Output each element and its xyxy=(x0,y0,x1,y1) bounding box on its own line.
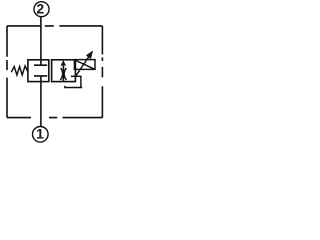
restriction arcs (right box) xyxy=(60,68,66,80)
proportional arrowhead xyxy=(86,51,93,59)
svg-text:1: 1 xyxy=(36,125,44,141)
wire: port 1 line from valve bottom to circle xyxy=(40,82,42,127)
blocked port T top (left box) xyxy=(34,60,47,65)
enclosure dashed boundary top xyxy=(7,25,102,27)
manual override step: left tick xyxy=(64,86,66,88)
enclosure dashed boundary left xyxy=(6,26,8,118)
spring (left of valve) xyxy=(11,66,27,75)
wire: port 2 line from circle to valve top xyxy=(40,17,42,60)
valve position box right (throttling position) xyxy=(52,60,76,82)
proportional solenoid box xyxy=(74,60,95,70)
svg-text:2: 2 xyxy=(36,1,44,17)
manual override step: upper bar xyxy=(71,75,82,77)
flow arrow stem (right box) xyxy=(62,65,64,82)
port circle 1 xyxy=(33,127,49,143)
valve position box left (closed position) xyxy=(28,60,49,82)
enclosure dashed boundary right xyxy=(101,26,103,118)
manual override step: lower bar xyxy=(64,87,82,89)
blocked port T bottom (left box) xyxy=(34,76,47,82)
enclosure dashed boundary bottom xyxy=(7,117,102,119)
solenoid diagonal slash xyxy=(75,60,95,69)
port circle 2 xyxy=(34,2,49,17)
flow arrowhead (right box) xyxy=(61,60,66,66)
proportional arrow shaft xyxy=(76,54,91,76)
manual override step: vertical link xyxy=(80,76,82,87)
